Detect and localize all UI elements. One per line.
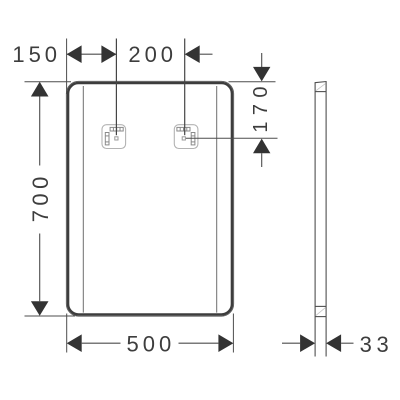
dimension 500 left line (82, 342, 121, 344)
dimension 33 right arrow (326, 334, 341, 352)
mirror inner left facet line (82, 86, 84, 313)
svg-text:200: 200 (128, 42, 177, 67)
bracket icon 1 left strip (105, 133, 109, 145)
side view top cell diagonal (316, 83, 326, 90)
bracket icon 1 outline (102, 125, 126, 149)
dimension 170 top arrow (253, 67, 270, 82)
side view top edge (315, 82, 327, 83)
extension line mirror bottom-right corner (500 dim) (232, 314, 234, 353)
mirror inner right facet line (216, 86, 218, 313)
extension line mirror top-left (700 dim) (25, 81, 72, 83)
dimension 500 right line (179, 342, 219, 344)
extension line mirror bottom-left corner (500 dim) (66, 314, 68, 353)
extension line bracket 1 center (115, 39, 117, 136)
side view bottom divider (315, 305, 326, 307)
side view bottom edge (315, 316, 326, 318)
extension line mirror bottom-left (700 dim) (25, 315, 76, 317)
dimension 150 left arrow (67, 45, 82, 63)
dimension 170 bottom arrow (253, 139, 270, 154)
dimension 700 upper line (39, 97, 41, 166)
side view top divider (315, 91, 326, 93)
bracket icon 1 center square (115, 137, 118, 140)
side view right edge (325, 82, 327, 357)
bracket icon 2 right strip (191, 133, 195, 145)
extension line mirror top edge extended right (170 dim) (229, 81, 276, 83)
dimension 33 left arrow (300, 334, 315, 352)
dimension 500 right arrow (218, 334, 233, 352)
mirror front view outer thin outline (66, 81, 233, 316)
dimension 200 arrow at bracket2 (185, 45, 200, 63)
dimension 150 line (67, 53, 117, 55)
svg-text:500: 500 (127, 331, 176, 356)
svg-text:170: 170 (250, 80, 272, 133)
dimension 33 right tail (341, 342, 353, 344)
svg-text:150: 150 (12, 42, 61, 67)
extension leader from bracket 2 (170 dim) (186, 137, 278, 139)
mirror front view main thick outline (68, 83, 232, 315)
extension line mirror left edge (top dim) (66, 39, 68, 95)
bracket icon 1 top strip (110, 127, 123, 131)
dimension 33 left tail (282, 342, 300, 344)
svg-text:33: 33 (360, 332, 394, 357)
dimension 700 lower line (39, 234, 41, 302)
side view left edge (314, 83, 316, 357)
dimension 700 top arrow (31, 82, 49, 97)
bracket icon 2 top strip (177, 127, 190, 131)
svg-text:700: 700 (28, 172, 53, 222)
side view bottom cell diagonal (316, 307, 326, 315)
dimension 500 left arrow (67, 334, 82, 352)
dimension 700 bottom arrow (31, 301, 49, 316)
dimension 170 upper tail (261, 53, 263, 67)
extension line bracket 2 center (184, 39, 186, 136)
dimension 150 right arrow (101, 45, 116, 63)
bracket icon 2 center square (182, 137, 185, 140)
dimension 200 tail line (200, 53, 213, 55)
bracket icon 2 outline (174, 125, 198, 149)
dimension 170 lower tail (261, 153, 263, 167)
